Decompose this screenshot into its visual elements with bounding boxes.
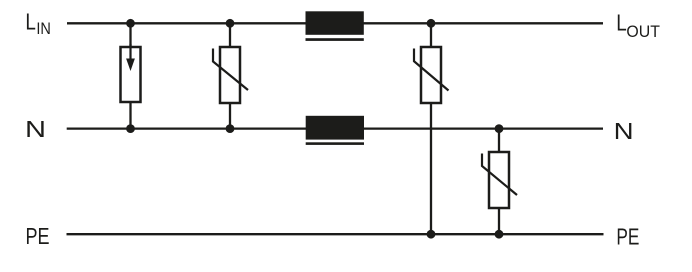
svg-text:L: L xyxy=(25,9,36,35)
junction N/RV3 xyxy=(495,124,504,133)
junction N/RV1 xyxy=(226,124,235,133)
svg-text:N: N xyxy=(614,118,634,144)
svg-text:L: L xyxy=(616,10,627,36)
svg-text:N: N xyxy=(25,116,46,142)
inductor L1 (L rail) xyxy=(306,11,364,41)
varistor RV1 (L-N) xyxy=(213,47,248,103)
svg-text:PE: PE xyxy=(26,223,50,249)
junction N/F1 xyxy=(126,124,135,133)
junction L/RV2 xyxy=(427,19,436,28)
junction L/F1 xyxy=(126,19,135,28)
wire N to varistor RV3 xyxy=(498,129,500,153)
wire L to varistor RV1 xyxy=(229,23,231,48)
junction PE/RV3 xyxy=(495,230,504,239)
wire L rail xyxy=(67,22,603,24)
node label L IN xyxy=(25,9,51,39)
wire N rail xyxy=(67,127,603,129)
junction L/RV1 xyxy=(226,19,235,28)
node label L OUT xyxy=(616,10,660,41)
wire varistor RV3 to PE xyxy=(498,207,500,234)
varistor RV3 (N-PE) xyxy=(482,152,517,208)
wire L to disconnector F1 xyxy=(129,23,131,48)
wire PE rail xyxy=(67,233,604,235)
varistor RV2 (L-PE) xyxy=(414,47,449,103)
svg-text:IN: IN xyxy=(36,19,51,38)
svg-text:OUT: OUT xyxy=(626,22,660,41)
inductor L2 (N rail) xyxy=(306,116,364,145)
junction PE/RV2 xyxy=(427,230,436,239)
wire varistor RV1 to N xyxy=(229,102,231,129)
svg-text:PE: PE xyxy=(616,224,639,250)
wire disconnector F1 to N xyxy=(129,101,131,129)
wire L to varistor RV2 xyxy=(430,23,432,48)
wire varistor RV2 to PE crossing N xyxy=(430,102,432,234)
disconnector F1 body xyxy=(121,44,141,102)
